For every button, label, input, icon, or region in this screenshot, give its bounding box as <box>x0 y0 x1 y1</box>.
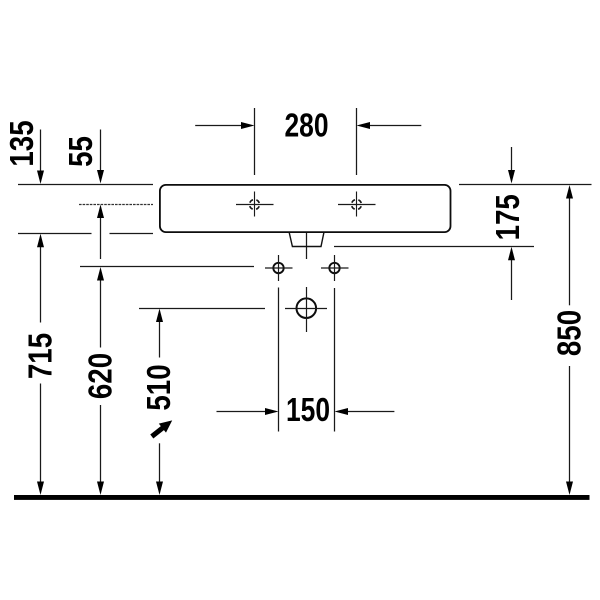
svg-text:150: 150 <box>286 392 330 428</box>
svg-text:135: 135 <box>4 120 41 166</box>
svg-text:175: 175 <box>490 194 527 240</box>
svg-text:620: 620 <box>82 353 119 399</box>
svg-text:55: 55 <box>63 136 100 167</box>
svg-text:715: 715 <box>22 333 59 379</box>
svg-text:850: 850 <box>551 310 588 356</box>
svg-text:280: 280 <box>284 108 328 144</box>
svg-text:510: 510 <box>141 364 178 410</box>
